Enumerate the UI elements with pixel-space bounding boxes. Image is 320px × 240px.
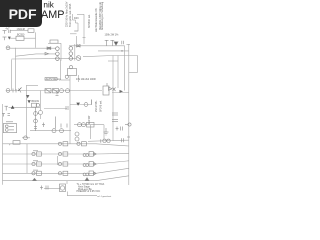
wire: [44, 108, 67, 110]
capacitor C15: [58, 142, 67, 146]
wire: [103, 125, 105, 139]
capacitor C5: [105, 40, 109, 46]
transistor Q17: [82, 123, 86, 127]
capacitor C1: [3, 30, 11, 34]
svg-text:PREAMP of 0.95 VCC: PREAMP of 0.95 VCC: [77, 190, 101, 193]
capacitor C9: [42, 123, 45, 128]
wire: [48, 42, 61, 44]
wire: [44, 188, 60, 190]
wire: [108, 60, 118, 62]
transistor Q18: [75, 132, 79, 136]
diode D1: [114, 42, 118, 46]
page background: [0, 0, 149, 198]
wire: [67, 192, 69, 196]
wire: [16, 54, 56, 56]
resistor R6 label: [45, 78, 57, 81]
svg-text:BD139: BD139: [32, 100, 40, 103]
svg-text:ALPS 50k log: ALPS 50k log: [46, 78, 61, 81]
capacitor C16: [77, 142, 86, 146]
wire: [69, 76, 71, 91]
wire: [40, 91, 42, 111]
transistor Q8: [76, 56, 81, 61]
wire: [22, 137, 30, 139]
transistor Q23: [84, 103, 88, 107]
wire: [30, 130, 71, 132]
capacitor C10: [55, 117, 67, 129]
potentiometer P2: [53, 89, 59, 93]
connector J2: [6, 89, 10, 93]
wire: [10, 30, 28, 32]
wire: [137, 56, 139, 73]
resistor R4: [34, 107, 43, 130]
wire: [26, 144, 28, 174]
rectifier D9: [83, 171, 96, 176]
PDF badge: [0, 0, 42, 27]
input connector J1: [6, 46, 10, 50]
diode D2: [121, 50, 122, 51]
svg-text:ca 1:1 gezeichnet: ca 1:1 gezeichnet: [97, 195, 112, 198]
wire: [26, 86, 28, 138]
wire: [3, 144, 129, 146]
wire: [61, 79, 71, 81]
transistor Q12: [36, 103, 40, 107]
diode pair D11: [45, 52, 49, 55]
wire: [74, 124, 104, 126]
svg-text:4u7: 4u7: [6, 27, 11, 30]
capacitor C19: [32, 161, 41, 166]
wire: [83, 14, 85, 44]
diode D13: [76, 103, 80, 106]
svg-text:PDF: PDF: [9, 6, 37, 22]
diode D4: [109, 87, 113, 90]
capacitor C24: [2, 114, 10, 117]
wire: [69, 91, 71, 144]
wire: [24, 37, 36, 39]
wire: [88, 140, 113, 143]
wire: [10, 47, 56, 49]
relay K2: [87, 122, 95, 127]
capacitor C23: [40, 186, 48, 190]
wire: [117, 56, 119, 89]
ground: [104, 128, 109, 135]
capacitor C12: [116, 127, 123, 131]
diode pair D10: [47, 47, 51, 50]
transistor Q20: [103, 139, 106, 142]
wire: [35, 32, 37, 47]
wire: [91, 100, 93, 105]
resistor R7: [56, 91, 59, 96]
transistor Q21: [125, 123, 131, 126]
output jack J3: [60, 184, 66, 192]
wire: [12, 57, 77, 60]
wire: [3, 168, 129, 173]
wire: [15, 48, 17, 91]
wire: [66, 181, 68, 184]
wire: [128, 44, 130, 185]
IC U2: [3, 122, 16, 133]
svg-text:1N4148: 1N4148: [17, 28, 26, 31]
wire: [98, 50, 129, 52]
wire: [3, 176, 129, 181]
transistor Q11: [113, 88, 124, 93]
node A: [11, 105, 15, 108]
rectifier D7: [83, 152, 96, 157]
relay K1: [32, 103, 37, 107]
wire: [78, 75, 80, 82]
wire: [10, 90, 102, 92]
capacitor C18: [58, 152, 67, 156]
svg-text:BC550C sel.: BC550C sel.: [88, 14, 91, 28]
capacitor C6: [110, 40, 114, 46]
diode D12: [77, 45, 81, 48]
transistor Q2: [56, 47, 60, 51]
svg-text:AMP: AMP: [41, 9, 64, 21]
wire: [83, 56, 138, 57]
transistor Q15: [60, 129, 64, 133]
wire: [112, 56, 114, 142]
transistor Q22: [24, 136, 28, 140]
wire: [124, 46, 126, 91]
capacitor C21: [32, 170, 41, 175]
resistor R2: [16, 36, 24, 40]
capacitor C8: [66, 106, 68, 110]
capacitor C20: [58, 162, 67, 166]
wire: [9, 106, 41, 108]
capacitor C7: [5, 106, 9, 110]
transistor Q6: [69, 52, 73, 56]
transistor Q7: [69, 57, 73, 61]
svg-text:nik: nik: [43, 0, 54, 9]
wire: [11, 60, 13, 91]
capacitor C17: [32, 151, 41, 156]
capacitor C2: [3, 37, 11, 41]
op-amp U1: [65, 66, 76, 79]
wire: [90, 125, 92, 139]
svg-text:BF245 sel.: BF245 sel.: [100, 100, 103, 112]
transistor Q9: [60, 89, 64, 93]
ground GND2: [85, 178, 89, 181]
wire: [77, 13, 84, 15]
svg-text:Anmerkung zur Schaltung: Anmerkung zur Schaltung: [101, 1, 104, 30]
svg-text:Trafo prim. sek. 30VA: Trafo prim. sek. 30VA: [69, 3, 72, 27]
transistor Q14: [52, 129, 56, 133]
capacitor C13: [112, 113, 118, 115]
potentiometer P1: [45, 89, 51, 93]
wire: [26, 85, 38, 87]
svg-text:BC550: BC550: [17, 34, 25, 37]
wire: [10, 37, 16, 39]
wire: [56, 156, 58, 165]
wire: [3, 161, 129, 164]
wire: [112, 92, 129, 94]
resistor R3: [13, 88, 29, 99]
capacitor C4: [122, 41, 124, 45]
ground GND1: [33, 178, 37, 180]
fuse F1: [13, 141, 20, 145]
svg-text:100k 2W 1%: 100k 2W 1%: [105, 34, 120, 37]
svg-text:D43: D43: [74, 17, 79, 20]
wire: [129, 72, 138, 74]
transistor Q19: [75, 137, 79, 141]
capacitor C14: [112, 120, 118, 122]
wire: [60, 43, 62, 61]
svg-text:2SK170BL: 2SK170BL: [95, 100, 98, 112]
diode D5: [28, 100, 31, 103]
transistor Q3: [56, 52, 60, 56]
svg-text:alle Widerstaende 1%: alle Widerstaende 1%: [95, 7, 98, 32]
resistor R1: [28, 29, 34, 33]
capacitor C22: [58, 171, 67, 175]
svg-text:47k 10k 2k2 100R: 47k 10k 2k2 100R: [76, 78, 96, 81]
capacitor C11: [101, 137, 130, 143]
transistor Q16: [78, 123, 82, 127]
capacitor C3 label: [50, 40, 58, 43]
transistor Q10: [66, 89, 70, 93]
transistor Q4: [56, 57, 60, 61]
diode D3: [103, 83, 109, 95]
wire: [67, 195, 97, 197]
rectifier D8: [83, 162, 96, 167]
wire: [2, 144, 4, 185]
wire: [3, 152, 129, 155]
wire: [72, 14, 74, 20]
svg-text:1k2 5W: 1k2 5W: [88, 115, 91, 124]
wire: [127, 43, 131, 45]
transistor Q5: [69, 47, 73, 51]
wire: [60, 60, 62, 81]
